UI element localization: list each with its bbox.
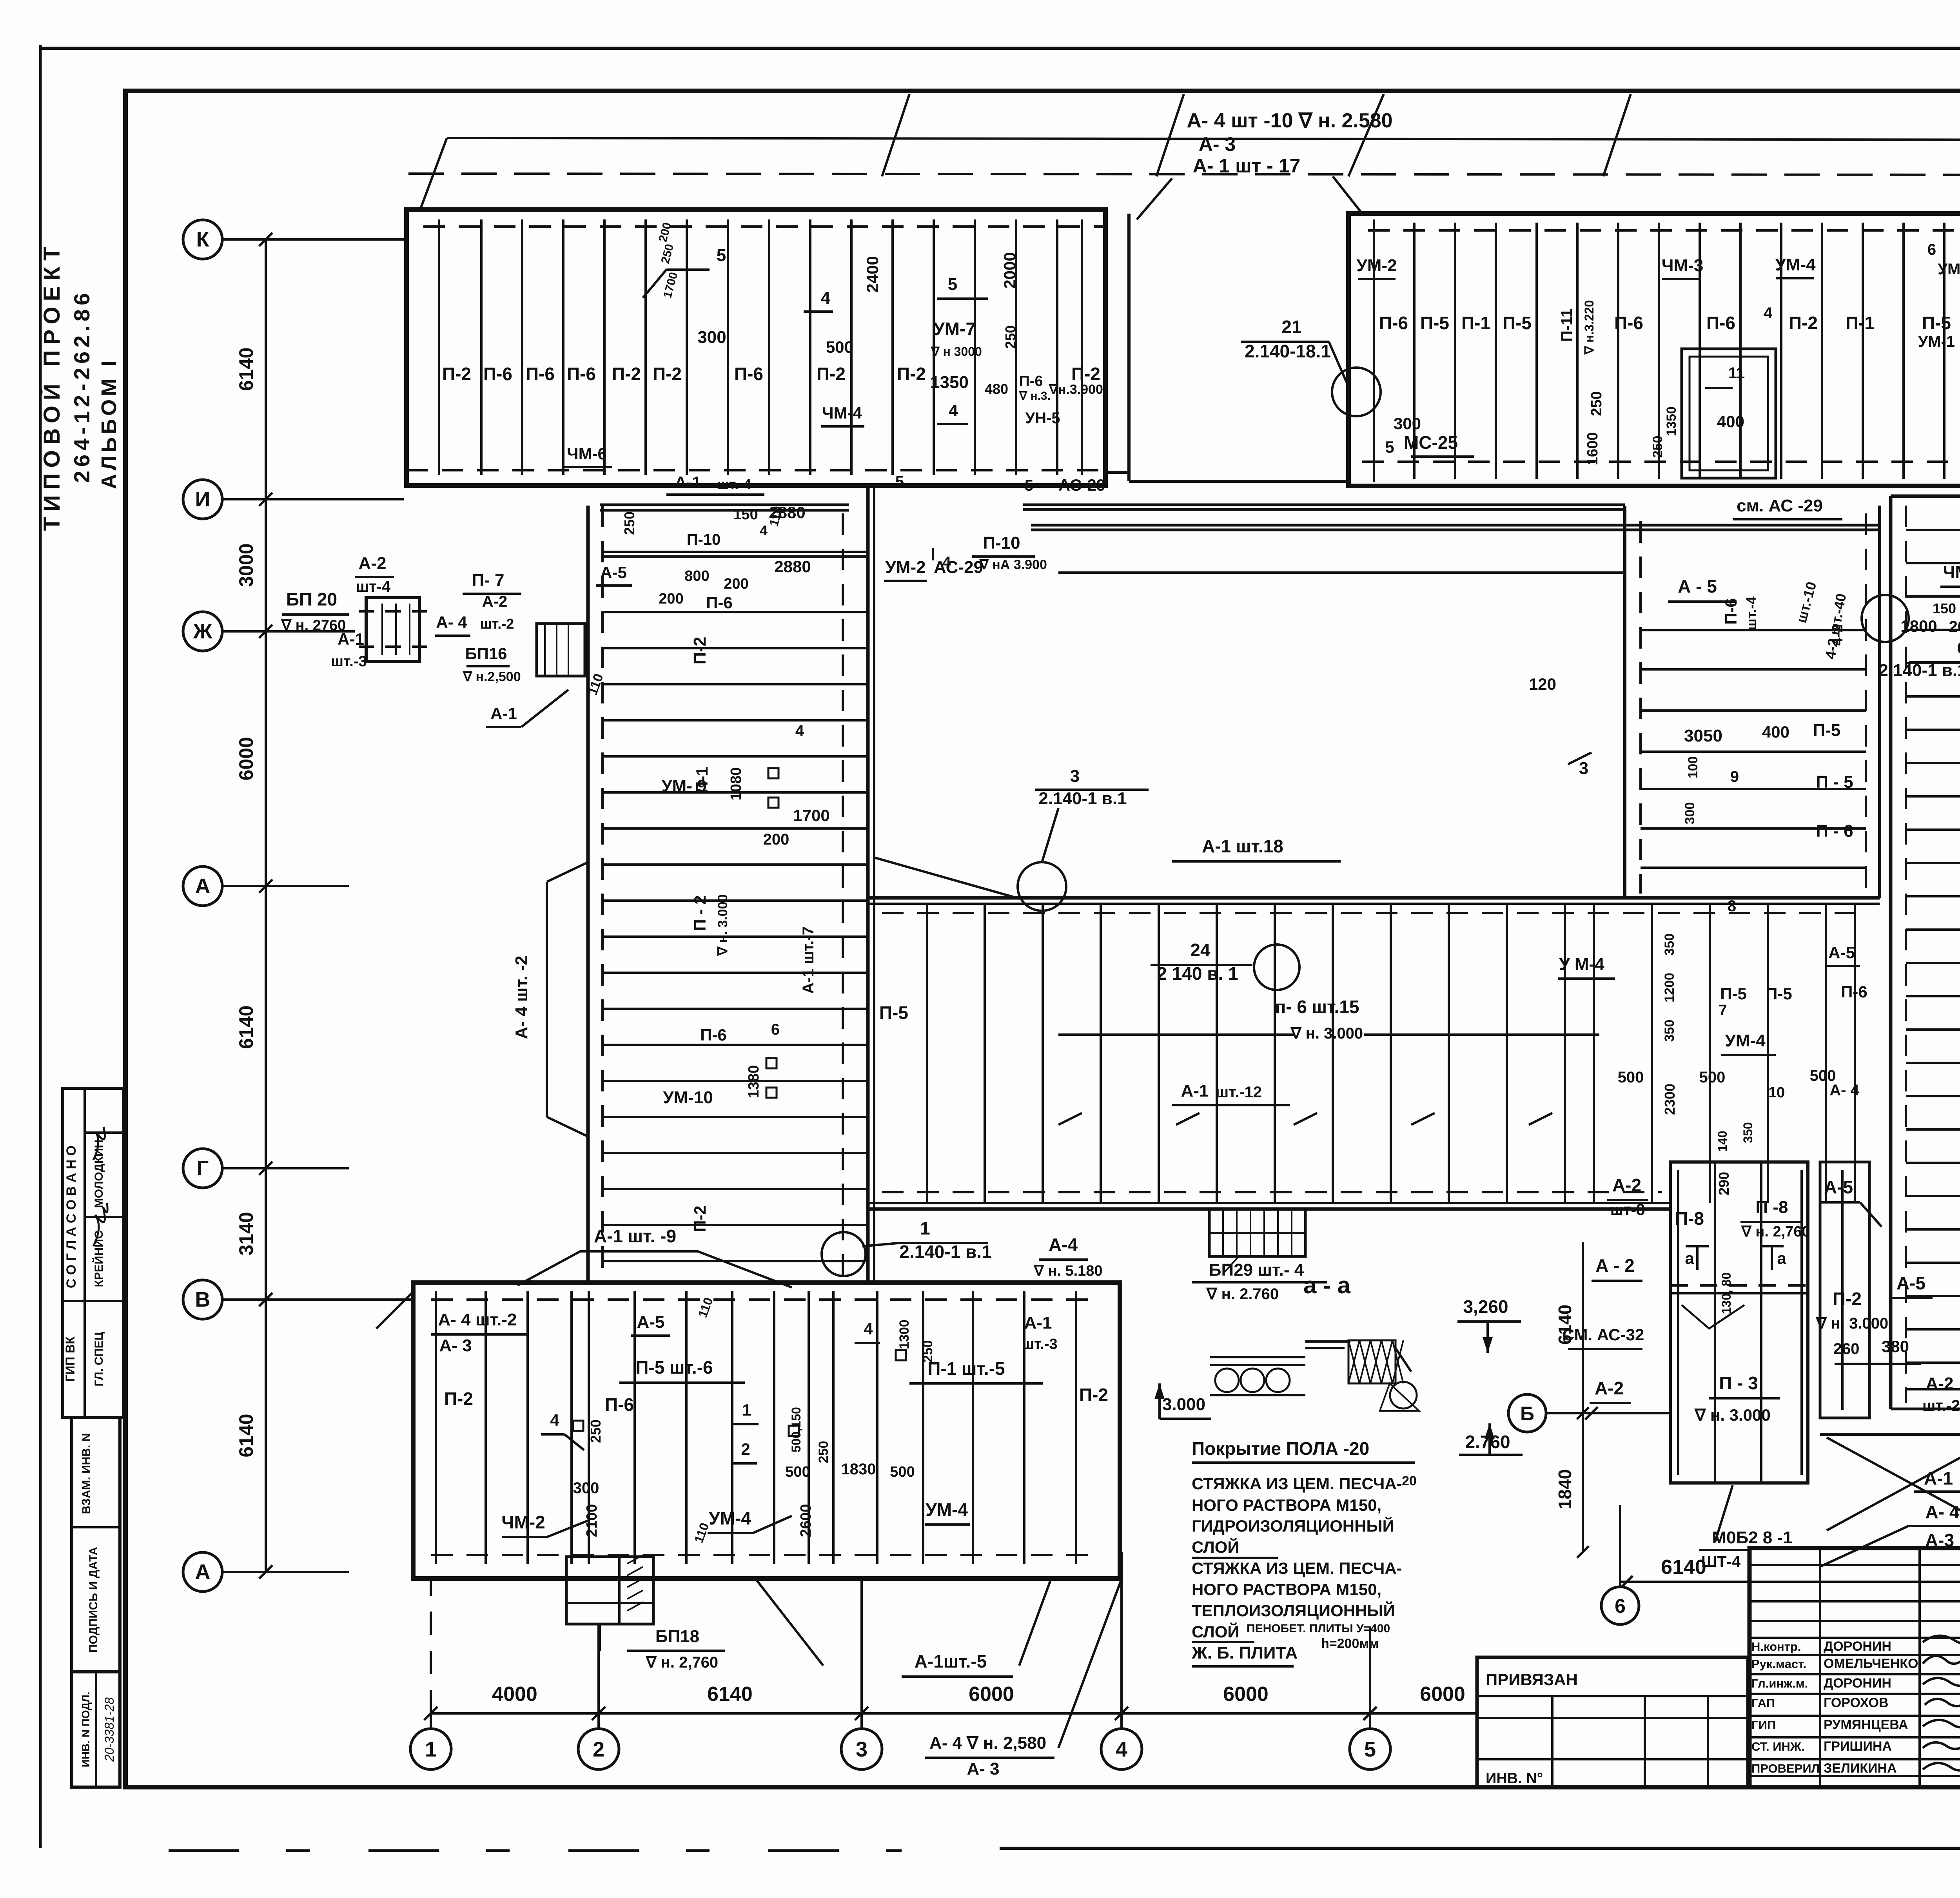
middle-right block panel joints [1641,629,1866,631]
corridor wall A [600,504,849,506]
left wing outline [586,506,590,1283]
svg-text:А-1: А-1 [1024,1313,1052,1332]
svg-text:4: 4 [550,1411,559,1429]
svg-text:АС-29: АС-29 [934,558,983,577]
corridor outline [867,896,1880,900]
svg-text:А-2: А-2 [1926,1374,1954,1393]
svg-text:1: 1 [742,1401,751,1419]
svg-text:шт.-4: шт.-4 [1743,596,1759,630]
svg-text:Ж. Б. ПЛИТА: Ж. Б. ПЛИТА [1191,1643,1298,1662]
svg-text:250: 250 [920,1340,935,1363]
axis B row marker [1508,1394,1546,1432]
svg-text:п- 6 шт.15: п- 6 шт.15 [1275,997,1359,1017]
svg-text:1380: 1380 [746,1065,762,1099]
svg-text:П-1 шт.-5: П-1 шт.-5 [927,1358,1005,1379]
svg-text:А-5: А-5 [1824,1177,1853,1197]
svg-text:СТЯЖКА ИЗ ЦЕМ. ПЕСЧА-: СТЯЖКА ИЗ ЦЕМ. ПЕСЧА- [1192,1559,1402,1577]
svg-text:МОЛОДКИН: МОЛОДКИН [93,1140,105,1208]
svg-text:А-1 шт.-7: А-1 шт.-7 [800,926,817,994]
svg-text:УМ-7: УМ-7 [933,319,976,339]
svg-text:П-5: П-5 [1813,721,1841,740]
svg-text:290: 290 [1716,1172,1732,1195]
svg-text:А- 4 ∇ н. 2,580: А- 4 ∇ н. 2,580 [929,1733,1046,1753]
svg-text:УМ-4: УМ-4 [709,1508,751,1528]
svg-text:1840: 1840 [1555,1469,1575,1509]
right wing outline [1889,496,1893,1409]
svg-text:А-5: А-5 [1896,1273,1926,1293]
svg-text:3140: 3140 [235,1212,257,1255]
svg-text:1600: 1600 [1584,432,1601,466]
svg-text:∇ н.3.220: ∇ н.3.220 [1582,300,1596,355]
axis А row marker [183,867,222,906]
svg-text:П-6: П-6 [706,593,733,612]
svg-text:ДОРОНИН: ДОРОНИН [1824,1676,1891,1691]
svg-text:ПРИВЯЗАН: ПРИВЯЗАН [1486,1670,1578,1689]
svg-text:А- 4: А- 4 [1829,1082,1859,1099]
svg-text:СТ. ИНЖ.: СТ. ИНЖ. [1751,1740,1805,1753]
corridor panel joints [926,904,928,1203]
svg-text:ЧМ-4: ЧМ-4 [822,404,862,422]
svg-text:Ж: Ж [193,620,213,643]
svg-text:А - 2: А - 2 [1595,1255,1635,1276]
svg-text:ГИДРОИЗОЛЯЦИОННЫЙ: ГИДРОИЗОЛЯЦИОННЫЙ [1192,1516,1394,1535]
svg-text:П - 5: П - 5 [1816,772,1853,792]
svg-text:МС-25: МС-25 [1404,432,1458,453]
svg-text:УМ-1: УМ-1 [1918,333,1955,350]
privyazan box [1477,1657,1748,1787]
svg-text:150: 150 [733,506,758,523]
svg-text:а: а [1777,1249,1786,1267]
svg-text:1700: 1700 [793,806,829,825]
svg-text:130, 80: 130, 80 [1719,1273,1733,1314]
bottom-left wing panel joints [435,1291,437,1564]
svg-text:∇ н. 5.180: ∇ н. 5.180 [1033,1263,1102,1279]
svg-text:4: 4 [821,288,831,308]
axis К row marker [183,220,222,259]
svg-text:1830: 1830 [841,1461,876,1478]
svg-text:3: 3 [1579,759,1588,778]
axis 3 leader [860,1713,863,1729]
svg-text:5: 5 [1364,1738,1376,1761]
svg-text:1350: 1350 [930,373,969,392]
svg-text:П-6: П-6 [734,364,763,384]
svg-text:П-6: П-6 [1614,313,1643,333]
svg-text:6140: 6140 [235,347,257,391]
svg-text:ЗЕЛИКИНА: ЗЕЛИКИНА [1824,1761,1897,1776]
axis 2 leader [597,1713,600,1729]
svg-text:П-2: П-2 [1789,313,1818,333]
axis 6 column marker [1601,1587,1639,1624]
svg-text:У М-4: У М-4 [1559,955,1604,974]
axis 3 column marker [841,1729,882,1769]
svg-text:БП18: БП18 [655,1627,699,1646]
svg-text:П-1: П-1 [1846,313,1875,333]
svg-text:А- 3: А- 3 [967,1759,999,1778]
axis 4 column marker [1101,1729,1142,1769]
roof leader 5 [1603,94,1631,176]
svg-text:шт-4: шт-4 [356,578,391,595]
svg-text:П-6: П-6 [605,1394,634,1415]
svg-text:шт.-2: шт.-2 [480,616,514,632]
svg-text:250: 250 [816,1441,831,1463]
svg-text:НОГО РАСТВОРА М150,: НОГО РАСТВОРА М150, [1192,1580,1381,1599]
svg-text:П-6: П-6 [1722,598,1740,625]
margin inv podl box [72,1672,120,1787]
svg-text:ЧМ-2: ЧМ-2 [501,1512,545,1532]
svg-text:250: 250 [588,1419,604,1443]
svg-text:А- 1 шт - 17: А- 1 шт - 17 [1193,155,1301,177]
svg-text:120: 120 [1529,675,1556,693]
svg-text:ГОРОХОВ: ГОРОХОВ [1824,1695,1888,1710]
roof outline upper line [447,138,1960,140]
outer page border bottom dashes [169,1849,902,1852]
BP18 block bottom [566,1557,653,1624]
roof leader 4 [1348,94,1384,176]
svg-text:ИНВ. N°: ИНВ. N° [1486,1770,1543,1787]
svg-text:2: 2 [593,1738,604,1761]
svg-text:П-6: П-6 [1019,373,1043,390]
svg-text:Н.контр.: Н.контр. [1751,1640,1801,1653]
svg-text:П-2: П-2 [690,637,710,665]
svg-text:∇ н. 3.000: ∇ н. 3.000 [1290,1025,1363,1042]
svg-text:П-6: П-6 [1841,983,1867,1001]
svg-text:А- 4 шт. -2: А- 4 шт. -2 [512,955,531,1039]
axis 5 leader [1369,1713,1371,1729]
svg-text:Гл.инж.м.: Гл.инж.м. [1751,1677,1808,1690]
svg-text:см. АС -29: см. АС -29 [1737,496,1823,515]
svg-text:УМ-4: УМ-4 [1775,255,1816,274]
mid corridor arrows [1058,1113,1082,1125]
svg-text:6000: 6000 [1420,1683,1465,1706]
svg-text:И: И [195,488,211,511]
svg-text:П-5: П-5 [1922,313,1951,333]
svg-text:УМ-2: УМ-2 [1356,256,1397,275]
svg-text:П-2: П-2 [444,1389,473,1409]
svg-text:П-5: П-5 [879,1002,908,1023]
svg-text:∇ н.3.: ∇ н.3. [1019,390,1051,402]
svg-text:А- 4: А- 4 [436,613,467,631]
svg-text:шт.-2: шт.-2 [1922,1397,1960,1414]
svg-text:П-6: П-6 [700,1026,727,1044]
svg-text:УМ-4: УМ-4 [926,1499,968,1520]
svg-text:НОГО РАСТВОРА М150,: НОГО РАСТВОРА М150, [1192,1496,1381,1514]
svg-text:500,150: 500,150 [789,1407,803,1452]
svg-text:УМ-10: УМ-10 [663,1088,713,1107]
svg-text:а: а [1685,1249,1694,1267]
svg-text:4000: 4000 [492,1683,537,1706]
svg-text:С О Г Л А С О В А Н О: С О Г Л А С О В А Н О [64,1146,79,1288]
svg-text:А - 5: А - 5 [1678,576,1717,596]
svg-text:24: 24 [1190,940,1210,960]
svg-text:2.140-1 в.1: 2.140-1 в.1 [899,1242,991,1262]
stairs BP29 [1209,1209,1305,1256]
svg-text:П-6: П-6 [526,364,555,384]
svg-text:1: 1 [425,1738,437,1761]
svg-text:10: 10 [1768,1084,1785,1101]
axis 2 leader up [597,1624,600,1713]
svg-text:шт.-3: шт.-3 [331,653,367,670]
svg-text:ИНВ. N ПОДЛ.: ИНВ. N ПОДЛ. [80,1691,92,1767]
svg-text:500: 500 [1618,1069,1644,1086]
svg-text:П-5: П-5 [1720,984,1747,1003]
svg-text:П-8: П-8 [1675,1208,1704,1229]
svg-text:2: 2 [741,1440,750,1458]
svg-text:8: 8 [1728,897,1736,915]
svg-text:П-6: П-6 [1379,313,1408,333]
svg-text:∇ н. 3.000: ∇ н. 3.000 [715,894,730,956]
svg-text:А: А [195,1560,211,1584]
svg-text:КРЕЙНИС: КРЕЙНИС [92,1231,105,1287]
svg-text:К: К [196,228,210,251]
svg-text:П -8: П -8 [1756,1198,1788,1217]
callout circle 24 [1254,944,1299,990]
svg-text:БП 20: БП 20 [286,589,337,609]
svg-text:СМ. АС-32: СМ. АС-32 [1563,1325,1644,1344]
svg-text:шт-8: шт-8 [1610,1201,1645,1218]
svg-text:П-5 шт.-6: П-5 шт.-6 [635,1357,713,1378]
svg-text:300: 300 [573,1479,599,1497]
outer page border left [39,45,42,1848]
left vertical dimension line [265,239,267,1572]
svg-text:ГИП: ГИП [1751,1718,1776,1732]
svg-text:∇ н. 2760: ∇ н. 2760 [281,617,346,634]
roof reference line A-4 [408,174,1960,175]
svg-text:200: 200 [659,591,683,607]
svg-text:6000: 6000 [1223,1683,1269,1706]
roof leader 2 [1156,94,1184,176]
top wing left outline [407,210,1105,486]
svg-text:2300: 2300 [1662,1084,1678,1115]
svg-text:П-2: П-2 [1833,1289,1862,1309]
svg-text:2600: 2600 [798,1504,814,1537]
callout circle 21 [1332,368,1381,416]
roof leader 7 [1333,176,1362,214]
svg-text:380: 380 [1882,1337,1909,1356]
svg-text:260: 260 [1833,1340,1860,1358]
svg-text:БП16: БП16 [465,644,507,663]
svg-text:300: 300 [1394,414,1421,433]
svg-text:А-4: А-4 [1049,1235,1078,1255]
axis Ж row marker [183,612,222,651]
outer page border top [40,47,1960,50]
svg-text:250: 250 [621,511,637,535]
svg-text:ГЛ. СПЕЦ: ГЛ. СПЕЦ [93,1332,105,1386]
axis 1 column marker [410,1729,451,1769]
svg-text:4: 4 [760,522,768,538]
svg-text:1: 1 [920,1218,930,1238]
svg-text:А-2: А-2 [482,593,507,610]
svg-text:∇ н. 2,760: ∇ н. 2,760 [1741,1224,1810,1240]
svg-text:А-1: А-1 [675,473,701,491]
svg-text:4: 4 [1764,305,1773,322]
svg-text:5: 5 [717,246,726,265]
svg-text:1200: 1200 [1662,973,1677,1002]
svg-text:СЛОЙ: СЛОЙ [1192,1537,1240,1556]
svg-text:350: 350 [1662,934,1677,956]
axis 5 column marker [1350,1729,1390,1769]
opening block 11 [1682,349,1776,478]
svg-text:300: 300 [1682,802,1697,825]
margin vzam inv box [72,1418,120,1672]
svg-text:1350: 1350 [1664,406,1679,436]
svg-text:шт.-4: шт.-4 [717,476,751,492]
svg-text:П-11: П-11 [1558,309,1575,342]
svg-text:ПРОВЕРИЛ: ПРОВЕРИЛ [1751,1762,1820,1775]
middle-right block outline [1623,506,1626,898]
svg-text:П-2: П-2 [1079,1385,1108,1405]
bottom dimension line [431,1712,1477,1715]
svg-text:ЧМ-3: ЧМ-3 [1662,256,1704,275]
svg-text:ТИПОВОЙ ПРОЕКТ: ТИПОВОЙ ПРОЕКТ [39,241,65,531]
svg-text:100: 100 [1686,756,1700,779]
P-2 narrow block [1820,1162,1869,1418]
svg-text:200: 200 [724,576,748,592]
svg-text:500: 500 [826,338,853,356]
svg-text:Г: Г [197,1157,209,1180]
svg-text:4: 4 [949,401,958,420]
svg-text:УН-5: УН-5 [1025,410,1060,427]
svg-text:20-3381-28: 20-3381-28 [102,1697,116,1762]
svg-text:2880: 2880 [774,557,811,576]
svg-text:2 140 в. 1: 2 140 в. 1 [1157,963,1238,984]
svg-text:500: 500 [785,1464,810,1480]
svg-text:ШТ-4: ШТ-4 [1701,1553,1741,1570]
svg-text:А-2: А-2 [1595,1378,1624,1398]
svg-text:2100: 2100 [584,1504,600,1537]
svg-text:П-10: П-10 [687,531,721,548]
svg-text:П-2: П-2 [612,364,641,384]
bottom-left wing outline [413,1283,1120,1579]
svg-text:ПЕНОБЕТ. ПЛИТЫ У=400: ПЕНОБЕТ. ПЛИТЫ У=400 [1247,1622,1390,1635]
svg-text:УМ-4: УМ-4 [1725,1031,1766,1050]
svg-text:2000: 2000 [1000,252,1019,288]
svg-text:3.000: 3.000 [1162,1395,1205,1414]
svg-text:А- 3: А- 3 [1199,133,1236,155]
right wing panel joints [1906,529,1960,531]
svg-text:А-1: А-1 [338,630,364,648]
axis 5 leader up [1369,1626,1371,1713]
svg-text:УМ- 9: УМ- 9 [661,776,706,796]
callout circle 3 [1018,862,1066,911]
svg-text:П-5: П-5 [1420,313,1449,333]
svg-text:3050: 3050 [1684,726,1722,745]
roof leader 3 [1137,178,1172,219]
svg-text:7: 7 [1719,1002,1727,1019]
svg-text:250: 250 [1002,325,1018,349]
svg-text:П - 3: П - 3 [1719,1373,1758,1393]
svg-text:∇ н. 2.760: ∇ н. 2.760 [1206,1285,1279,1303]
callout circle 6 wall [1862,595,1909,642]
callout circle 1 [822,1232,866,1276]
svg-text:∇ н.2,500: ∇ н.2,500 [463,669,521,684]
svg-text:2400: 2400 [863,256,882,292]
svg-text:4: 4 [864,1320,873,1338]
svg-text:П-1: П-1 [1461,313,1490,333]
svg-text:250: 250 [1588,391,1605,416]
svg-text:П-10: П-10 [983,533,1020,553]
top wing right outline [1348,214,1960,486]
svg-text:6000: 6000 [235,737,257,780]
svg-text:6140: 6140 [235,1005,257,1049]
svg-text:1800: 1800 [1900,617,1937,635]
svg-text:П-6: П-6 [1706,313,1735,333]
svg-text:140: 140 [1715,1131,1730,1151]
corridor wall B [1031,524,1880,527]
svg-text:5: 5 [1385,438,1394,456]
svg-text:А- 4: А- 4 [1926,1502,1960,1522]
svg-text:5: 5 [948,275,957,294]
svg-text:264-12-262.86: 264-12-262.86 [69,289,94,483]
svg-text:ГИП ВК: ГИП ВК [63,1336,77,1382]
svg-text:350: 350 [1662,1020,1677,1042]
svg-text:П-5: П-5 [1503,313,1532,333]
svg-text:А- 3: А- 3 [439,1336,472,1355]
svg-text:А- 4 шт -10 ∇ н. 2.580: А- 4 шт -10 ∇ н. 2.580 [1187,109,1392,132]
svg-text:ВЗАМ. ИНВ. N: ВЗАМ. ИНВ. N [80,1433,93,1514]
svg-text:2.140-1 в.1: 2.140-1 в.1 [1038,789,1127,808]
P-8 block outline [1670,1162,1808,1483]
svg-text:А-5: А-5 [600,563,627,582]
svg-text:6: 6 [1615,1595,1626,1617]
svg-text:6: 6 [771,1021,780,1038]
axis В row marker [183,1280,222,1319]
svg-text:П-2: П-2 [1071,364,1100,384]
svg-text:3: 3 [856,1738,867,1761]
svg-text:2.140-18.1: 2.140-18.1 [1245,341,1331,361]
svg-text:А-2: А-2 [359,554,387,573]
svg-text:ЧМ-6: ЧМ-6 [567,444,607,463]
svg-text:П-6: П-6 [483,364,512,384]
svg-text:шт.-12: шт.-12 [1216,1084,1262,1101]
svg-text:П-2: П-2 [817,364,846,384]
svg-text:РУМЯНЦЕВА: РУМЯНЦЕВА [1824,1717,1908,1732]
svg-text:ДОРОНИН: ДОРОНИН [1824,1639,1891,1654]
svg-text:Б: Б [1520,1403,1534,1425]
svg-text:250: 250 [1650,436,1665,458]
svg-text:1300: 1300 [897,1320,912,1349]
svg-text:ГРИШИНА: ГРИШИНА [1824,1739,1892,1754]
svg-text:400: 400 [1762,723,1789,741]
svg-text:А-1: А-1 [1181,1081,1209,1100]
title block [1749,1548,1960,1787]
axis 2 column marker [578,1729,619,1769]
svg-text:ЧМ-4: ЧМ-4 [1943,563,1960,582]
axis 1 leader up [430,1579,432,1713]
svg-text:∇ н 3000: ∇ н 3000 [931,344,982,359]
svg-text:УМ-4: УМ-4 [1938,261,1960,278]
svg-text:П- 7: П- 7 [472,571,505,590]
svg-text:200: 200 [763,831,789,848]
svg-text:шт.-3: шт.-3 [1022,1336,1057,1352]
axis 1 leader [430,1713,432,1729]
svg-text:ОМЕЛЬЧЕНКО: ОМЕЛЬЧЕНКО [1824,1656,1918,1671]
outer page border bottom [1000,1847,1960,1850]
svg-text:∇ н. 3.000: ∇ н. 3.000 [1815,1315,1888,1332]
svg-text:СЛОЙ: СЛОЙ [1192,1622,1240,1641]
svg-text:21: 21 [1281,317,1301,337]
svg-text:П - 2: П - 2 [691,896,709,931]
svg-text:150: 150 [1933,600,1956,616]
axis А row marker [183,1552,222,1592]
svg-text:А-1 шт. -9: А-1 шт. -9 [594,1226,676,1246]
svg-text:6: 6 [1927,241,1936,258]
svg-text:400: 400 [1717,412,1744,431]
svg-text:П-5: П-5 [1766,984,1792,1003]
svg-text:А-2: А-2 [1612,1175,1641,1195]
svg-text:ТЕПЛОИЗОЛЯЦИОННЫЙ: ТЕПЛОИЗОЛЯЦИОННЫЙ [1192,1601,1395,1620]
svg-text:4: 4 [942,554,951,571]
svg-text:6140: 6140 [1661,1556,1706,1579]
